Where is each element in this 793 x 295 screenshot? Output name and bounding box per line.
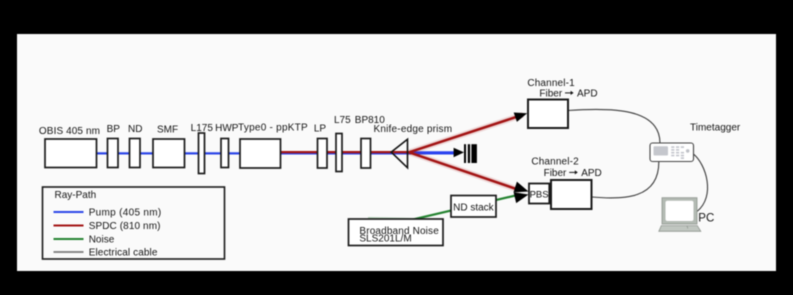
timetagger screen <box>654 146 669 155</box>
lens L75 <box>336 134 342 172</box>
PC laptop screen <box>666 201 694 221</box>
svg-text:Ray-Path: Ray-Path <box>55 190 97 201</box>
PC laptop keyboard <box>659 226 701 232</box>
wire red beam lower glow <box>409 152 520 190</box>
svg-text:Timetagger: Timetagger <box>690 123 741 134</box>
timetagger knob <box>686 149 690 153</box>
svg-text:HWP: HWP <box>215 123 239 134</box>
wire red beam upper glow <box>409 115 523 153</box>
svg-text:Channel-2: Channel-2 <box>531 157 579 168</box>
beam dump bar 1 <box>464 144 466 163</box>
beam dump bar 3 <box>471 144 477 163</box>
filter BP <box>108 139 119 168</box>
svg-text:LP: LP <box>314 124 327 135</box>
source broadband noise box <box>349 219 444 246</box>
wire blue to beam dump <box>409 151 455 154</box>
waveplate HWP <box>221 139 229 168</box>
legend box <box>43 187 225 259</box>
timetagger body <box>650 143 694 162</box>
filter BP810 <box>361 139 371 169</box>
PC laptop bezel <box>662 198 697 224</box>
svg-text:SMF: SMF <box>157 125 178 136</box>
svg-text:PBS: PBS <box>530 190 549 201</box>
wire electrical cable timetagger to PC <box>693 154 707 212</box>
detector channel-2 box <box>551 180 592 209</box>
legend pump line <box>54 211 84 213</box>
crystal Type0 ppKTP <box>240 139 281 168</box>
timetagger buttons <box>671 146 684 159</box>
svg-text:SPDC (810 nm): SPDC (810 nm) <box>89 221 161 232</box>
legend noise line <box>54 238 84 240</box>
filter ND <box>130 139 141 168</box>
wire red beam upper <box>409 116 518 152</box>
svg-text:Fiber: Fiber <box>539 89 562 100</box>
wire electrical cable ch1 to timetagger <box>568 109 660 143</box>
svg-text:Pump (405 nm): Pump (405 nm) <box>89 208 162 219</box>
svg-text:SLS201L/M: SLS201L/M <box>359 234 411 245</box>
wire green noise beam <box>413 194 521 219</box>
legend cable line <box>54 251 84 253</box>
beam dump bar 2 <box>468 144 470 163</box>
svg-text:ND stack: ND stack <box>453 203 495 214</box>
PC laptop keyboard divider <box>686 226 689 229</box>
svg-text:OBIS 405 nm: OBIS 405 nm <box>39 126 100 137</box>
svg-text:Knife-edge prism: Knife-edge prism <box>374 124 453 135</box>
svg-text:L75: L75 <box>334 115 351 126</box>
svg-text:L175: L175 <box>191 123 214 134</box>
splitter PBS box <box>529 184 549 204</box>
arrowhead at PBS green beam <box>514 192 529 203</box>
filter LP <box>318 139 328 169</box>
panel background <box>17 34 776 271</box>
svg-text:BP: BP <box>107 124 121 135</box>
svg-text:Electrical cable: Electrical cable <box>89 248 158 259</box>
arrowhead at channel-1 <box>514 113 528 122</box>
wire electrical cable ch2 to timetagger <box>592 162 659 198</box>
detector channel-1 box <box>528 100 568 129</box>
arrowhead at PBS red beam <box>514 182 529 193</box>
svg-text:APD: APD <box>577 89 598 100</box>
svg-text:Type0 - ppKTP: Type0 - ppKTP <box>238 123 308 134</box>
wire pump blue rail <box>97 152 454 154</box>
svg-text:Fiber: Fiber <box>544 168 567 179</box>
lens L175 <box>199 133 205 174</box>
beam dump arrow <box>454 148 464 158</box>
filter ND stack box <box>451 196 496 218</box>
laser OBIS 405 nm <box>45 139 97 168</box>
svg-text:Noise: Noise <box>89 235 115 246</box>
wire green noise faint start <box>368 218 416 219</box>
wire SPDC red rail <box>281 151 410 153</box>
svg-text:ND: ND <box>128 124 142 135</box>
fiber SMF <box>153 139 185 168</box>
legend SPDC line <box>54 225 84 227</box>
wire red beam lower <box>409 152 518 189</box>
svg-text:PC: PC <box>698 212 714 224</box>
svg-text:APD: APD <box>581 168 602 179</box>
prism knife-edge <box>391 139 407 168</box>
